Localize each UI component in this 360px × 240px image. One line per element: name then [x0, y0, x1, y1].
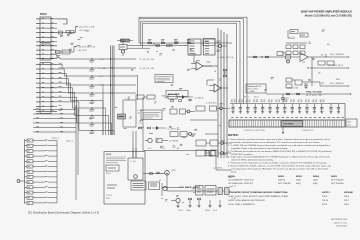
svg-text:6. Resistors R4102 thru R4105: 6. Resistors R4102 thru R4105 comprise a… — [228, 165, 331, 168]
svg-text:0Ω(R.0): 0Ω(R.0) — [278, 180, 285, 182]
svg-text:(Sheet 1 of 2): (Sheet 1 of 2) — [334, 221, 348, 224]
svg-text:U4100, U4101, U4140: MC33072,: U4100, U4101, U4140: MC33072, HIGH PERFO… — [228, 195, 289, 198]
svg-text:CLD1088A (VHF, 120W, R1): CLD1088A (VHF, 120W, R1) — [228, 179, 254, 182]
svg-text:GROUND: GROUND — [344, 192, 353, 194]
svg-text:LUG: LUG — [347, 124, 351, 126]
svg-text:+28_VOLT_1_RB: +28_VOLT_1_RB — [79, 27, 95, 29]
svg-text:INTEGRATED CIRCUIT POWER AND G: INTEGRATED CIRCUIT POWER AND GROUND CONN… — [228, 191, 288, 194]
svg-text:NOT PLACED: NOT PLACED — [331, 179, 344, 182]
svg-text:PIN 4: PIN 4 — [344, 204, 350, 206]
svg-text:0Ω(L): 0Ω(L) — [296, 183, 301, 185]
svg-text:R4111: R4111 — [254, 97, 259, 99]
svg-text:GND: GND — [347, 121, 352, 123]
svg-text:Q4131: Q4131 — [171, 170, 176, 172]
svg-text:NOT PLACED: NOT PLACED — [278, 182, 291, 185]
svg-text:side of the RF/DC distribution: side of the RF/DC distribution board ass… — [231, 159, 274, 162]
svg-text:picofarads, and inductor value: picofarads, and inductor values are in m… — [231, 141, 320, 144]
svg-text:P100: P100 — [40, 12, 47, 16]
svg-text:Spare_1: Spare_1 — [52, 137, 59, 140]
svg-text:4. S-type output connector (0: 4. S-type output connector (0845518100, … — [228, 156, 330, 159]
svg-text:68P73585P73-A: 68P73585P73-A — [331, 218, 348, 221]
svg-text:PIN 16: PIN 16 — [322, 200, 329, 202]
svg-text:- J700/E700-01 (BOTTOM) -: - J700/E700-01 (BOTTOM) - — [243, 130, 266, 132]
svg-text:CLF1088A (VHF, 120W, R2): CLF1088A (VHF, 120W, R2) — [228, 182, 253, 185]
svg-text:+9_1B: +9_1B — [99, 59, 105, 61]
svg-text:+5_LINK B: +5_LINK B — [167, 128, 177, 130]
svg-text:3. The Motorola part number f: 3. The Motorola part number for the xtra… — [228, 150, 331, 153]
svg-text:10/15/2007: 10/15/2007 — [336, 226, 348, 228]
svg-text:TL_100: TL_100 — [130, 161, 136, 163]
svg-text:0.1uF: 0.1uF — [213, 210, 217, 212]
svg-text:R4102: R4102 — [278, 175, 285, 178]
svg-text:+9B_1W_2 RB: +9B_1W_2 RB — [142, 68, 155, 70]
svg-text:PA_1_SENSE B: PA_1_SENSE B — [330, 82, 344, 85]
svg-text:Models CLD1088A (R1) and CLF10: Models CLD1088A (R1) and CLF1088A (R2) — [305, 15, 353, 18]
svg-text:PIN 7: PIN 7 — [344, 200, 350, 202]
svg-text:9B_PWR/CTRL B: 9B_PWR/CTRL B — [328, 65, 344, 67]
svg-text:PIN 8: PIN 8 — [322, 196, 328, 198]
svg-text:1. Unless otherwise specified: 1. Unless otherwise specified, all resis… — [228, 138, 331, 141]
svg-text:L_20: L_20 — [125, 98, 129, 100]
svg-text:Spare_2: Spare_2 — [66, 140, 73, 143]
svg-text:38 TO 16.5V: 38 TO 16.5V — [306, 95, 317, 97]
svg-text:PIN 8: PIN 8 — [322, 204, 328, 206]
svg-text:5V_SENSE: 5V_SENSE — [169, 141, 179, 143]
svg-text:NOTE:: NOTE: — [106, 154, 112, 156]
svg-text:NOT PLACED: NOT PLACED — [331, 182, 344, 185]
svg-text:+9B_CNTL: +9B_CNTL — [78, 50, 87, 52]
svg-text:5. Connections to the cooling: 5. Connections to the cooling fans are m… — [228, 162, 327, 165]
svg-text:5_CHAN: 5_CHAN — [247, 90, 255, 93]
svg-text:- J700/E700-02 -: - J700/E700-02 - — [301, 130, 315, 132]
svg-text:120W VHF POWER AMPLIFIER MODUL: 120W VHF POWER AMPLIFIER MODULE — [300, 10, 352, 14]
svg-text:+5_LINK A: +5_LINK A — [194, 96, 204, 99]
svg-text:+5_LINK B+: +5_LINK B+ — [213, 168, 223, 170]
svg-text:+5_LINK_AUX: +5_LINK_AUX — [205, 102, 218, 105]
svg-text:+5_LINK: +5_LINK — [219, 154, 227, 156]
svg-text:(12V08, R2) assemblies.: (12V08, R2) assemblies. — [231, 154, 254, 156]
svg-text:+5_LINK_OUT 1.5A: +5_LINK_OUT 1.5A — [217, 56, 234, 59]
svg-text:. . . .: . . . . — [6, 4, 10, 6]
svg-text:PIN 4: PIN 4 — [344, 196, 350, 198]
svg-text:C4139: C4139 — [178, 210, 183, 212]
svg-text:1_50: 1_50 — [138, 123, 142, 125]
svg-text:and output power of the partic: and output power of the particular PA mo… — [231, 168, 329, 171]
svg-text:FINAL VOLTAGE: FINAL VOLTAGE — [306, 91, 322, 94]
svg-text:0Ω(L): 0Ω(L) — [313, 183, 318, 185]
svg-text:TP_2: TP_2 — [224, 143, 228, 145]
svg-text:0Ω(L): 0Ω(L) — [296, 180, 301, 182]
svg-text:+9B_EXP_BD 1.7A: +9B_EXP_BD 1.7A — [78, 46, 96, 49]
svg-text:DC Distribution Board Schemati: DC Distribution Board Schematic Diagram … — [28, 211, 99, 215]
svg-text:2. CL-28007 P/N and TTE8060 l: 2. CL-28007 P/N and TTE8060 low pass fil… — [228, 144, 330, 147]
svg-text:R4105: R4105 — [331, 175, 338, 178]
svg-text:9600_BAUD_SHUNT: 9600_BAUD_SHUNT — [179, 186, 201, 189]
svg-text:SUPPLY: SUPPLY — [322, 192, 330, 194]
svg-text:C4140: C4140 — [205, 210, 210, 212]
svg-text:repairable. Repair is by repla: repairable. Repair is by replacement of … — [231, 147, 288, 150]
svg-text:R4104: R4104 — [313, 175, 320, 178]
svg-text:R4131: R4131 — [106, 173, 111, 175]
svg-text:NOTES:: NOTES: — [228, 133, 239, 137]
svg-text:R4103: R4103 — [296, 175, 303, 178]
svg-text:below.: below. — [231, 171, 237, 173]
svg-text:R4110: R4110 — [244, 97, 249, 99]
svg-text:+9B_1W_1 RB: +9B_1W_1 RB — [142, 59, 155, 61]
svg-text:PA_1_SENSE A: PA_1_SENSE A — [330, 53, 344, 56]
svg-text:5 VOLT: 5 VOLT — [106, 195, 113, 197]
svg-text:100pF: 100pF — [186, 210, 191, 212]
svg-text:0Ω(L): 0Ω(L) — [313, 180, 318, 182]
svg-text:U4110: DUAL COMPARATOR: U4110: DUAL COMPARATOR — [228, 203, 255, 206]
svg-text:+C_LINE: +C_LINE — [99, 68, 107, 70]
svg-text:GND BRAID: GND BRAID — [283, 123, 294, 126]
